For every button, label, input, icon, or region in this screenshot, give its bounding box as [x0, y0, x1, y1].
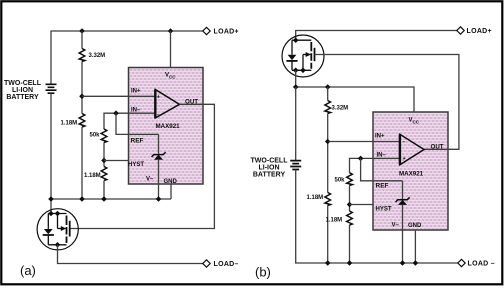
wire GND pin (b)	[414, 230, 416, 263]
battery B1 (a)	[46, 84, 57, 213]
wire IN- (b) 50k top	[350, 158, 400, 172]
svg-text:(a): (a)	[20, 263, 36, 278]
resistor 3.32M (b)	[325, 87, 348, 193]
wire REF (a)	[116, 113, 159, 134]
wire ground rail (a)	[51, 198, 171, 200]
svg-text:IN–: IN–	[377, 153, 387, 159]
svg-text:MAX921: MAX921	[399, 171, 424, 178]
node rail battery (a)	[48, 196, 54, 202]
IC U2 body MAX921	[373, 112, 448, 230]
wire IN- (a) 50k top	[104, 113, 155, 129]
svg-text:1.18M: 1.18M	[84, 173, 101, 179]
svg-text:BATTERY: BATTERY	[6, 94, 39, 101]
node rail GND (b)	[413, 260, 419, 266]
terminal LOAD+ (a)	[203, 27, 210, 34]
node rail R4 (a)	[101, 196, 107, 202]
wire HYST (b)	[350, 204, 374, 206]
op-amp comparator U1 (a)	[155, 90, 179, 119]
node rail 1.18M (b)	[325, 260, 331, 266]
resistor R4 1.18M (a)	[84, 167, 107, 200]
resistor 1.18M (b)	[307, 193, 331, 264]
svg-text:(b): (b)	[255, 265, 271, 280]
svg-text:V–: V–	[392, 223, 400, 229]
svg-text:LOAD –: LOAD –	[468, 261, 495, 268]
node HYST junction (b)	[347, 202, 353, 208]
node IN-/REF junction (a)	[113, 110, 119, 116]
node IN+ (a)	[79, 94, 85, 100]
svg-text:OUT: OUT	[431, 143, 444, 150]
svg-text:1.18M: 1.18M	[326, 218, 343, 224]
svg-text:VCC: VCC	[165, 73, 176, 80]
svg-text:TWO-CELL: TWO-CELL	[4, 80, 42, 87]
terminal LOAD- (b)	[458, 259, 465, 266]
battery label (a)	[4, 80, 42, 101]
svg-text:V–: V–	[146, 177, 154, 183]
svg-text:+: +	[403, 156, 406, 162]
resistor R2 1.18M (a)	[61, 114, 85, 200]
terminal LOAD+ (b)	[457, 27, 464, 34]
svg-text:MAX921: MAX921	[156, 123, 181, 130]
svg-text:+: +	[157, 95, 160, 101]
zener reference D2 (b)	[396, 181, 410, 263]
svg-text:HYST: HYST	[128, 162, 144, 168]
svg-text:50k: 50k	[90, 133, 101, 139]
svg-text:BATTERY: BATTERY	[253, 172, 286, 179]
svg-text:–: –	[157, 112, 160, 118]
svg-text:LOAD+: LOAD+	[467, 28, 492, 35]
node HYST junction (a)	[101, 158, 107, 164]
svg-text:LOAD–: LOAD–	[214, 261, 239, 268]
zener reference D1 (a)	[152, 134, 166, 199]
node IN-/REF junction (b)	[358, 156, 364, 162]
node rail R2 (a)	[79, 196, 85, 202]
wire IN+ (a)	[82, 95, 155, 97]
transistor Q2 MOSFET (b)	[282, 35, 324, 77]
battery B2 (b)	[290, 87, 458, 263]
svg-text:REF: REF	[131, 138, 144, 145]
svg-text:3.32M: 3.32M	[89, 53, 106, 59]
wire LOAD- (a)	[58, 245, 204, 264]
resistor 50k (b)	[335, 173, 353, 211]
node rail V- (a)	[156, 196, 162, 202]
wire Vcc drop (a)	[170, 31, 172, 68]
svg-text:VCC: VCC	[409, 118, 420, 125]
node top rail / Vcc	[168, 28, 174, 34]
svg-text:LI-ION: LI-ION	[12, 87, 33, 94]
wire top rail (a) battery+ to LOAD+	[51, 31, 204, 85]
wire GND pin (a)	[170, 184, 172, 199]
svg-text:1.18M: 1.18M	[61, 121, 78, 127]
wire HYST (a)	[104, 160, 129, 162]
resistor 1.18M lower (b)	[326, 211, 353, 263]
svg-text:LI-ION: LI-ION	[259, 165, 280, 172]
svg-text:IN–: IN–	[131, 108, 141, 114]
node IN+ (b)	[325, 139, 331, 145]
wire source rail (b)	[296, 70, 414, 112]
op-amp comparator U2 (b)	[400, 134, 424, 165]
svg-text:50k: 50k	[335, 178, 346, 184]
svg-text:TWO-CELL: TWO-CELL	[251, 158, 289, 165]
wire OUT to gate (a)	[70, 104, 215, 228]
resistor 3.32M (a)	[79, 31, 105, 114]
wire REF (b)	[361, 158, 403, 180]
svg-text:1.18M: 1.18M	[307, 195, 324, 201]
svg-text:REF: REF	[376, 183, 389, 190]
node rail 1.18M lower (b)	[347, 260, 353, 266]
IC U1 body MAX921	[129, 68, 204, 185]
terminal LOAD- (a)	[203, 260, 210, 267]
svg-text:HYST: HYST	[376, 207, 392, 213]
svg-text:LOAD+: LOAD+	[214, 29, 239, 36]
svg-text:IN+: IN+	[131, 89, 141, 95]
resistor 50k (a)	[90, 129, 107, 167]
node source rail battery (b)	[293, 84, 299, 90]
node rail V- (b)	[400, 260, 406, 266]
node source rail 3.32M (b)	[325, 84, 331, 90]
transistor Q1 MOSFET (a)	[37, 209, 78, 250]
wire IN+ (b)	[328, 141, 400, 143]
wire gate to OUT (b)	[315, 55, 459, 150]
svg-text:3.32M: 3.32M	[332, 106, 349, 112]
svg-text:–: –	[403, 140, 406, 146]
wire top rail (b) to LOAD+	[296, 31, 458, 41]
node top rail / 3.32M top	[79, 28, 85, 34]
battery label (b)	[251, 158, 289, 179]
svg-text:IN+: IN+	[375, 134, 385, 140]
svg-text:GND: GND	[408, 223, 422, 229]
